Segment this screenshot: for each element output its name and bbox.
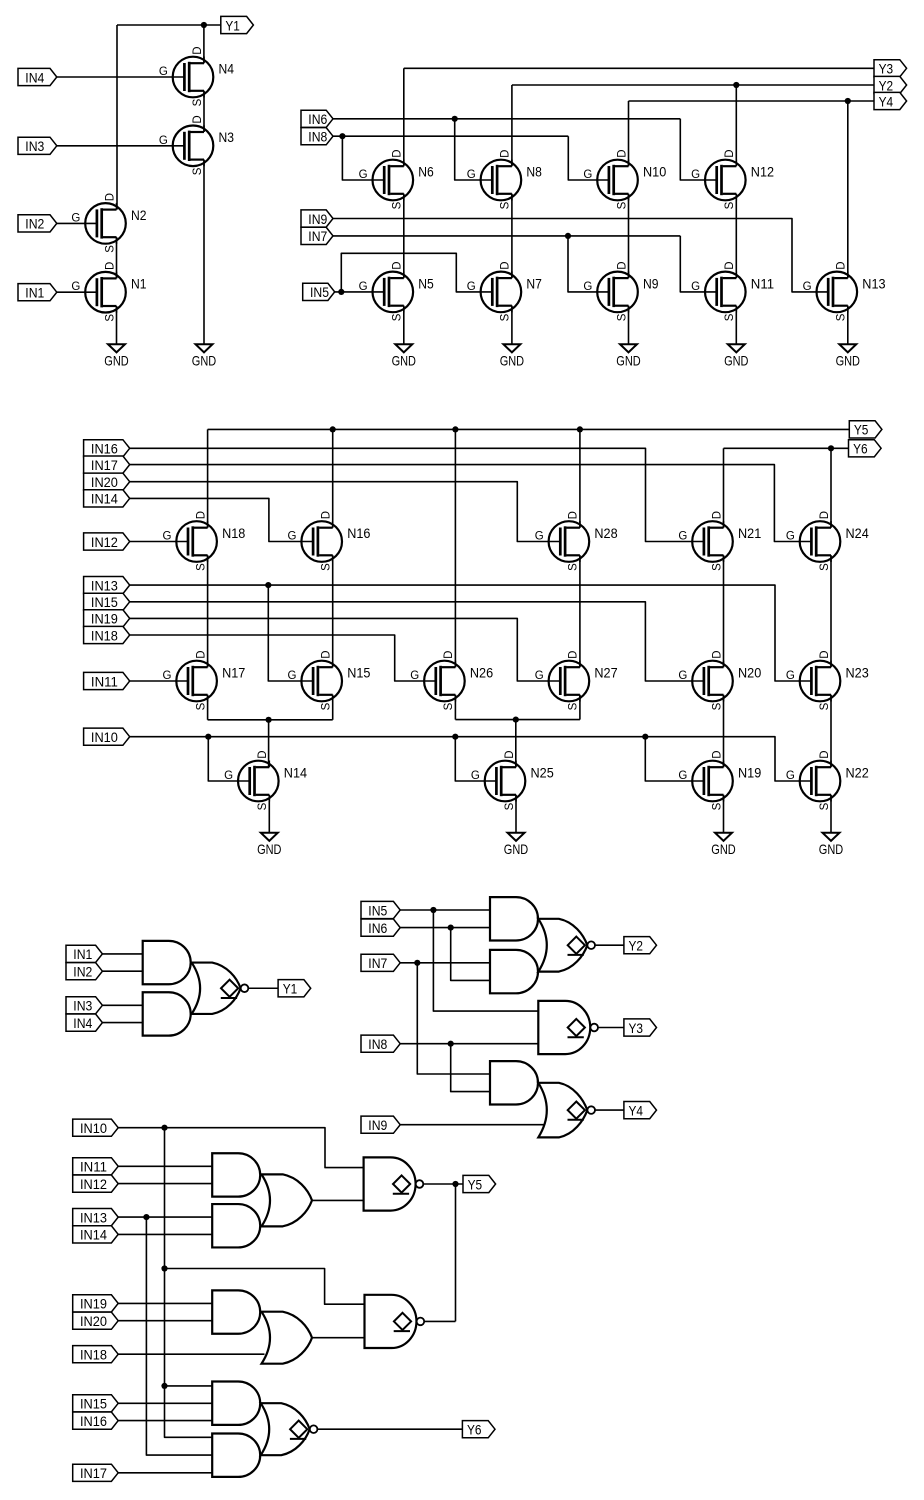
wire OR to NAND [312, 1199, 364, 1201]
svg-text:IN2: IN2 [73, 965, 92, 981]
svg-text:IN1: IN1 [25, 286, 44, 302]
junction IN7 branch [414, 960, 420, 966]
svg-text:G: G [678, 531, 687, 543]
wire N3 source to GND [628, 306, 630, 344]
transistor N26 [424, 661, 465, 702]
svg-text:S: S [724, 313, 736, 321]
svg-text:GND: GND [257, 841, 281, 857]
wire N26 drain long [454, 429, 456, 667]
wire IN3 to AND [102, 1004, 142, 1006]
wire IN14 net [130, 498, 313, 541]
svg-text:IN2: IN2 [25, 217, 44, 233]
svg-text:IN9: IN9 [368, 1118, 387, 1134]
ground [196, 344, 213, 352]
svg-text:N28: N28 [594, 526, 618, 541]
wire IN10 to N19 gate [645, 737, 703, 781]
transistor N9 [597, 271, 638, 312]
transistor N24 [800, 521, 841, 562]
svg-text:D: D [392, 149, 404, 157]
transistor N6 [373, 160, 414, 201]
svg-text:N27: N27 [594, 665, 617, 680]
svg-text:D: D [724, 149, 736, 157]
wire IN10 to N25 gate [455, 737, 495, 781]
output label Y1 [278, 980, 311, 997]
svg-text:IN17: IN17 [91, 458, 118, 474]
output label Y2 [874, 76, 907, 93]
svg-text:Y6: Y6 [467, 1423, 482, 1439]
wire IN4 to N4 gate [57, 76, 184, 78]
input label IN15 [73, 1395, 119, 1412]
svg-text:S: S [724, 201, 736, 209]
wire IN10 net [130, 737, 811, 781]
output label Y3 [624, 1019, 657, 1036]
input label IN19 [84, 610, 130, 627]
open-drain diamond [568, 937, 585, 954]
wire IN19 net [130, 618, 560, 681]
wire source tie 2 [455, 719, 580, 721]
svg-text:S: S [500, 201, 512, 209]
wire IN15 net [130, 602, 704, 681]
wire IN4 to AND [102, 1022, 142, 1024]
svg-text:IN18: IN18 [91, 628, 118, 644]
svg-text:S: S [819, 563, 831, 571]
input label IN5 [303, 283, 335, 300]
svg-text:D: D [192, 46, 204, 54]
svg-text:D: D [392, 261, 404, 269]
svg-text:S: S [443, 702, 455, 710]
transistor N25 [485, 761, 526, 802]
transistor N15 [301, 661, 342, 702]
transistor N7 [481, 271, 522, 312]
svg-text:D: D [195, 511, 207, 519]
open-drain diamond [394, 1313, 411, 1330]
svg-text:S: S [711, 702, 723, 710]
svg-text:IN14: IN14 [80, 1228, 107, 1244]
wire IN7 to AND [400, 962, 490, 964]
wire IN10 to NAND2 [165, 1269, 365, 1305]
svg-text:IN6: IN6 [308, 112, 327, 128]
svg-text:N26: N26 [470, 665, 494, 680]
junction IN10 main branch [161, 1125, 167, 1131]
svg-text:G: G [786, 670, 795, 682]
svg-text:S: S [392, 313, 404, 321]
svg-text:D: D [819, 511, 831, 519]
wire N6 drain up [403, 68, 405, 166]
wire IN17 to AND5 [118, 1472, 212, 1474]
ground [823, 833, 840, 841]
svg-text:G: G [288, 670, 297, 682]
svg-text:GND: GND [104, 353, 128, 369]
output label Y5 [849, 421, 882, 438]
AND gate U5b [212, 1204, 260, 1247]
NAND gate U3 [538, 1001, 590, 1054]
svg-text:IN9: IN9 [308, 212, 327, 228]
ground [261, 833, 278, 841]
wire N4 drain up [203, 25, 205, 63]
wire mid column 6 drain link [830, 555, 832, 667]
input label IN20 [73, 1312, 119, 1329]
ground [508, 833, 525, 841]
svg-text:D: D [500, 149, 512, 157]
transistor N17 [176, 661, 217, 702]
svg-text:D: D [104, 262, 116, 270]
svg-text:Y2: Y2 [629, 939, 644, 955]
svg-text:G: G [678, 670, 687, 682]
svg-text:S: S [104, 314, 116, 322]
junction Y2/N12 drain [733, 82, 739, 88]
output label Y5 [463, 1175, 496, 1192]
wire N14 source to GND [268, 795, 270, 833]
svg-text:Y5: Y5 [854, 423, 869, 439]
wire IN1 to AND [102, 953, 142, 955]
svg-text:Y4: Y4 [879, 94, 894, 110]
svg-text:S: S [711, 563, 723, 571]
svg-text:IN19: IN19 [80, 1297, 107, 1313]
svg-text:GND: GND [724, 353, 748, 369]
svg-text:N18: N18 [222, 526, 246, 541]
junction IN10 to N19 [642, 734, 648, 740]
wire mid column 4 drain link [579, 555, 581, 667]
svg-text:S: S [104, 245, 116, 253]
wire IN19 to AND [118, 1302, 212, 1304]
svg-text:IN12: IN12 [80, 1177, 107, 1193]
svg-text:Y5: Y5 [468, 1177, 483, 1193]
input label IN17 [84, 456, 130, 473]
NOR (AOI output) U7 [261, 1403, 310, 1455]
wire IN9 net [333, 219, 828, 292]
svg-text:GND: GND [192, 353, 216, 369]
junction IN10 to N25 [452, 734, 458, 740]
svg-text:D: D [257, 750, 269, 758]
wire IN10 net [118, 1128, 363, 1168]
svg-text:IN10: IN10 [80, 1121, 107, 1137]
transistor N20 [692, 661, 733, 702]
svg-text:IN11: IN11 [91, 674, 118, 690]
svg-text:G: G [583, 169, 592, 181]
input label IN9 [361, 1116, 400, 1133]
wire OR to NAND2 [312, 1337, 365, 1339]
wire IN7 branch to AND [417, 963, 490, 1074]
svg-text:D: D [836, 261, 848, 269]
svg-text:N10: N10 [643, 164, 667, 179]
wire N26 source down [454, 695, 456, 720]
svg-text:N17: N17 [222, 665, 245, 680]
wire IN20 net [130, 482, 560, 542]
ground [715, 833, 732, 841]
input label IN3 [66, 997, 102, 1014]
wire IN11 to N17 gate [130, 680, 188, 682]
svg-text:D: D [819, 750, 831, 758]
ground [108, 344, 125, 352]
input label IN12 [73, 1175, 119, 1192]
svg-text:G: G [467, 281, 476, 293]
svg-text:N4: N4 [219, 61, 235, 76]
svg-text:IN13: IN13 [80, 1210, 107, 1226]
svg-text:G: G [678, 770, 687, 782]
wire NAND2 output [424, 1320, 456, 1322]
wire N24 drain up [830, 448, 832, 527]
svg-text:S: S [392, 201, 404, 209]
svg-text:D: D [711, 511, 723, 519]
svg-text:IN6: IN6 [368, 921, 387, 937]
svg-text:IN8: IN8 [308, 130, 327, 146]
svg-text:IN3: IN3 [73, 999, 92, 1015]
svg-text:S: S [257, 802, 269, 810]
input label IN1 [18, 284, 57, 301]
wire N4 source to N3 drain [203, 91, 205, 132]
wire IN13 to N15 gate [268, 585, 312, 681]
wire IN17 net [130, 465, 811, 542]
wire IN5 to AND [400, 909, 490, 911]
ground [395, 344, 412, 352]
svg-text:N11: N11 [751, 276, 774, 291]
wire Y4 net [629, 100, 875, 102]
wire source tie 1 [208, 719, 333, 721]
wire IN14 to AND [118, 1233, 212, 1235]
wire IN7 to N11 gate [680, 236, 715, 292]
svg-text:S: S [568, 563, 580, 571]
svg-text:D: D [819, 650, 831, 658]
svg-text:S: S [500, 313, 512, 321]
svg-text:N13: N13 [862, 276, 886, 291]
junction Y1/N4 drain [201, 22, 207, 28]
wire N28 drain up [579, 429, 581, 527]
wire IN13 long vertical [146, 1217, 212, 1455]
transistor N2 [85, 203, 126, 244]
svg-text:G: G [583, 281, 592, 293]
svg-text:N6: N6 [418, 164, 434, 179]
wire IN10 to AND4 [165, 1385, 213, 1387]
svg-text:S: S [616, 313, 628, 321]
svg-text:N20: N20 [738, 665, 762, 680]
input label IN18 [73, 1346, 119, 1363]
svg-text:N25: N25 [531, 765, 555, 780]
AND gate U2b [490, 950, 538, 993]
svg-text:S: S [819, 802, 831, 810]
svg-text:IN19: IN19 [91, 612, 118, 628]
input label IN13 [84, 577, 130, 594]
svg-text:N14: N14 [284, 765, 308, 780]
svg-text:Y1: Y1 [225, 18, 240, 34]
svg-text:D: D [711, 750, 723, 758]
svg-text:D: D [616, 261, 628, 269]
input label IN16 [84, 440, 130, 457]
svg-text:N24: N24 [846, 526, 870, 541]
svg-text:S: S [192, 98, 204, 106]
wire N18 drain up [207, 429, 209, 527]
wire IN8 to N6 gate [342, 136, 383, 180]
input label IN1 [66, 945, 102, 962]
transistor N28 [549, 521, 590, 562]
svg-text:G: G [359, 169, 368, 181]
input label IN16 [73, 1412, 119, 1429]
junction IN13 branch [265, 582, 271, 588]
svg-text:G: G [159, 135, 168, 147]
wire IN1 to N1 gate [57, 291, 96, 293]
input label IN11 [84, 672, 130, 689]
wire N21 drain up [723, 448, 725, 527]
svg-text:Y3: Y3 [629, 1021, 644, 1037]
svg-text:S: S [568, 702, 580, 710]
wire Y3 output [598, 1027, 624, 1029]
svg-text:D: D [711, 650, 723, 658]
svg-text:IN5: IN5 [310, 285, 329, 301]
svg-text:G: G [288, 531, 297, 543]
wire mid column 2 drain link [332, 555, 334, 667]
svg-text:GND: GND [504, 841, 528, 857]
svg-text:G: G [162, 531, 171, 543]
wire IN8 to NAND [400, 1043, 538, 1045]
junction Y5/N16 drain [330, 426, 336, 432]
OR gate U5c [262, 1174, 313, 1226]
wire IN13 net [130, 585, 811, 681]
svg-text:G: G [786, 770, 795, 782]
svg-text:S: S [192, 167, 204, 175]
wire IN6 to AND [400, 927, 490, 929]
input label IN19 [73, 1295, 119, 1312]
svg-text:IN10: IN10 [91, 730, 118, 746]
input label IN12 [84, 533, 130, 550]
wire IN15 to AND4 [118, 1402, 212, 1404]
junction IN6 branch [448, 925, 454, 931]
ground [620, 344, 637, 352]
output label Y4 [874, 92, 907, 109]
transistor N18 [176, 521, 217, 562]
transistor N13 [817, 271, 858, 312]
wire Y2 net [512, 84, 874, 86]
transistor N14 [238, 761, 279, 802]
transistor N5 [373, 271, 414, 312]
svg-text:G: G [803, 281, 812, 293]
wire N20 source to N19 drain [723, 695, 725, 767]
wire IN5 to N5 gate [335, 291, 384, 293]
svg-text:S: S [504, 802, 516, 810]
svg-text:GND: GND [836, 353, 860, 369]
svg-text:G: G [410, 670, 419, 682]
input label IN14 [73, 1226, 119, 1243]
open-drain diamond [568, 1019, 585, 1036]
input label IN4 [18, 68, 57, 85]
svg-text:G: G [159, 66, 168, 78]
input label IN10 [73, 1119, 119, 1136]
wire N1 source to GND [403, 306, 405, 344]
wire IN6 net [333, 118, 680, 120]
input label IN17 [73, 1464, 119, 1481]
transistor N21 [692, 521, 733, 562]
svg-text:D: D [568, 511, 580, 519]
AND gate U7a [212, 1382, 260, 1425]
AND gate U1b [143, 992, 191, 1035]
junction Y5/N26 drain [452, 426, 458, 432]
wire IN18 to OR [118, 1353, 264, 1355]
wire N8 drain up [511, 85, 513, 166]
output label Y6 [462, 1421, 495, 1438]
wire N2 source to GND [511, 306, 513, 344]
svg-text:N1: N1 [131, 277, 147, 292]
junction IN8 branch [448, 1041, 454, 1047]
input label IN2 [66, 963, 102, 980]
svg-text:D: D [321, 511, 333, 519]
svg-text:Y6: Y6 [853, 442, 868, 458]
svg-text:IN15: IN15 [80, 1397, 107, 1413]
junction IN5 branch [430, 907, 436, 913]
input label IN10 [84, 728, 130, 745]
wire mid column 1 drain link [207, 555, 209, 667]
wire N27 source down [579, 695, 581, 720]
svg-text:G: G [535, 531, 544, 543]
wire IN20 to AND [118, 1320, 212, 1322]
svg-text:D: D [321, 650, 333, 658]
svg-text:D: D [616, 149, 628, 157]
wire IN5 to N7 gate [341, 253, 491, 292]
junction Y4/N13 drain [845, 98, 851, 104]
wire IN16 net [130, 448, 704, 541]
wire Y1 branch down to N2 drain [116, 25, 118, 210]
NOR (AOI output) U2 [538, 919, 587, 972]
output label Y1 [221, 16, 254, 33]
wire N16 drain up [332, 429, 334, 527]
svg-text:S: S [711, 802, 723, 810]
junction IN10 branch 2 [161, 1265, 167, 1271]
wire N2 source to N1 drain [116, 237, 118, 278]
svg-text:IN13: IN13 [91, 578, 118, 594]
output label Y6 [849, 440, 882, 457]
NAND gate U5 [364, 1157, 416, 1210]
wire IN7 to N9 gate [568, 236, 608, 292]
input label IN6 [301, 110, 333, 127]
transistor N11 [705, 271, 746, 312]
svg-text:IN8: IN8 [368, 1037, 387, 1053]
junction IN8 branch [339, 133, 345, 139]
wire IN16 to AND4 [118, 1420, 212, 1422]
svg-text:IN11: IN11 [80, 1160, 107, 1176]
junction Y5 output tie [452, 1181, 458, 1187]
svg-text:S: S [195, 702, 207, 710]
svg-text:D: D [192, 115, 204, 123]
svg-text:GND: GND [819, 841, 843, 857]
wire IN10 long vertical [165, 1128, 213, 1438]
input label IN15 [84, 593, 130, 610]
input label IN8 [301, 128, 333, 145]
svg-text:GND: GND [392, 353, 416, 369]
svg-text:G: G [786, 531, 795, 543]
input label IN11 [73, 1158, 119, 1175]
wire N23 source to N22 drain [830, 695, 832, 767]
svg-text:IN15: IN15 [91, 595, 118, 611]
wire N25 drain up [515, 720, 517, 768]
wire IN3 to N3 gate [57, 145, 184, 147]
svg-text:N22: N22 [846, 765, 869, 780]
svg-text:IN16: IN16 [91, 442, 118, 458]
junction IN13 branch [143, 1214, 149, 1220]
svg-text:N9: N9 [643, 276, 659, 291]
wire IN18 net [130, 635, 435, 681]
AND gate U1a [143, 941, 191, 984]
wire N10 drain up [628, 101, 630, 166]
svg-text:G: G [224, 770, 233, 782]
wire IN6 to N12 gate [680, 119, 716, 180]
wire IN11 to AND [118, 1165, 212, 1167]
svg-text:IN12: IN12 [91, 535, 118, 551]
wire N13 drain up [847, 101, 849, 278]
wire N12 drain up [735, 85, 737, 166]
wire IN12 to N18 gate [130, 541, 188, 543]
svg-text:GND: GND [711, 841, 735, 857]
svg-text:N19: N19 [738, 765, 762, 780]
wire N4 source to GND [735, 306, 737, 344]
wire IN5 branch to NAND [433, 910, 538, 1011]
svg-text:N8: N8 [526, 164, 542, 179]
